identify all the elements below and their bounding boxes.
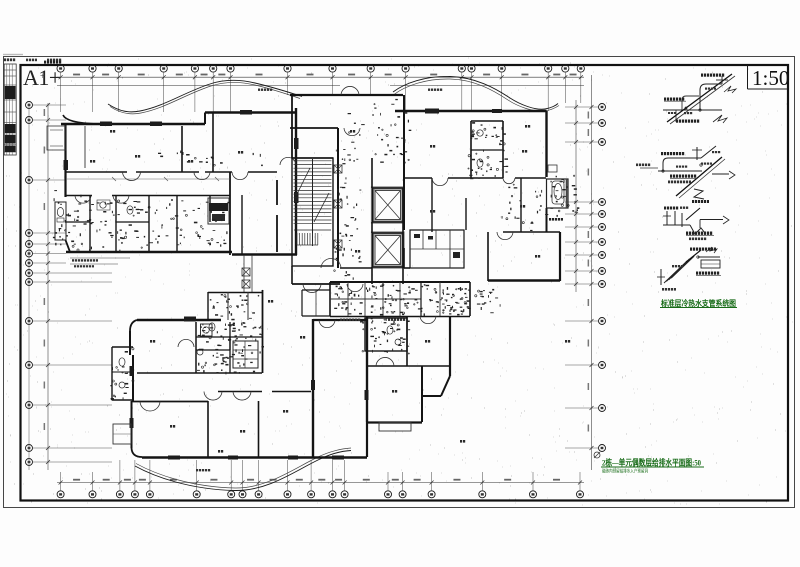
annotation cluster TR mid xyxy=(502,184,542,231)
window markers BLU walls xyxy=(130,366,316,460)
top-right unit partitions xyxy=(404,121,560,281)
entry hall door arc xyxy=(344,128,360,136)
sheet outer border xyxy=(4,57,795,508)
toilet TL bay xyxy=(57,208,64,223)
TLU hall wall xyxy=(276,180,278,252)
annotation cluster TL bathrooms xyxy=(71,199,229,252)
door arc big room BM xyxy=(319,320,369,460)
riser diagrams title (green) xyxy=(660,298,737,308)
TLU kitchen appliances xyxy=(208,198,229,224)
label below bottom wave xyxy=(196,469,210,471)
top-right unit right bay bathroom xyxy=(547,165,569,221)
bottom curved bay wave xyxy=(135,448,351,491)
sheet inner frame xyxy=(21,65,789,501)
door arc BM 1 xyxy=(376,357,394,366)
bottom-left unit left bath bay xyxy=(112,347,133,400)
right axis bubbles xyxy=(565,104,606,452)
top-right curved bay wave xyxy=(393,76,559,111)
bottom-left unit partitions xyxy=(132,322,312,457)
washing machine BLU xyxy=(184,317,212,337)
door arc corridor 1 xyxy=(123,172,141,181)
annotation cluster below entry xyxy=(442,287,500,313)
sheet name A1+ xyxy=(23,65,61,90)
header text row xyxy=(3,54,61,61)
scale 1:50 box xyxy=(748,65,790,90)
core walls xyxy=(290,95,404,284)
riser diagram 1 xyxy=(663,74,736,125)
annotation cluster BL bath xyxy=(197,322,264,374)
svg-text:1:50: 1:50 xyxy=(752,66,789,90)
riser pipes TL to BL xyxy=(244,255,252,293)
annotation cluster BL top shaft xyxy=(210,294,259,320)
bottom-left unit exterior walls xyxy=(130,319,313,458)
top-left unit partitions xyxy=(66,113,277,255)
door arc bath 1 xyxy=(75,196,129,204)
window markers TLU right wall xyxy=(64,138,299,203)
bottom axis grid bubbles xyxy=(57,460,583,498)
annotation cluster core mid xyxy=(334,142,362,280)
top-right unit exterior walls xyxy=(395,111,560,281)
door arc TR 3 xyxy=(497,232,513,240)
bottom-middle unit pipe-kitchen cluster xyxy=(330,282,470,317)
left axis bubbles xyxy=(26,102,113,466)
door arc BM 2 xyxy=(420,316,436,324)
annotation cluster center bottom pipes xyxy=(334,284,470,316)
top-left curved bay wave xyxy=(108,80,302,114)
left title strip table xyxy=(4,64,16,155)
bottom dimension line xyxy=(57,479,584,485)
top dimension line xyxy=(40,61,584,86)
riser X boxes corridor xyxy=(334,165,342,248)
labels under pipe cluster xyxy=(340,319,405,321)
annotation cluster entry top xyxy=(343,99,411,164)
top-left unit left bathroom bay xyxy=(55,202,66,240)
riser diagram 3 xyxy=(663,207,729,241)
window markers TLU top wall xyxy=(100,110,252,126)
stair core xyxy=(292,158,333,266)
toilet BL bath xyxy=(197,323,215,355)
bottom-middle unit walls xyxy=(365,316,450,431)
top-left unit left bay window xyxy=(47,126,66,150)
bottom-middle big room walls xyxy=(313,316,367,458)
window markers TRU top wall xyxy=(425,109,502,114)
room labels xyxy=(90,125,570,453)
TLU corridor dim line xyxy=(66,177,230,181)
annotation cluster BM bath xyxy=(360,318,410,354)
basin TR bath xyxy=(477,130,483,167)
bottom-left unit kitchen-bath cluster xyxy=(196,290,263,373)
door arc living TL xyxy=(280,157,296,165)
leader notes below TLU xyxy=(70,258,130,267)
svg-text:2栋—单元偶数层给排水平面图:50: 2栋—单元偶数层给排水平面图:50 xyxy=(602,458,701,468)
svg-text:磁砖内预留给排水入户预留洞: 磁砖内预留给排水入户预留洞 xyxy=(602,468,648,475)
door arc BL 1 xyxy=(140,402,160,412)
elevator shaft 2 xyxy=(373,233,404,267)
door arc BL 2 xyxy=(204,392,222,401)
basin TL bath xyxy=(97,200,110,210)
toilet TL bath2 xyxy=(127,206,133,214)
riser diagram 4 xyxy=(657,247,721,291)
svg-text:标准层冷热水支管系统图: 标准层冷热水支管系统图 xyxy=(660,298,736,308)
TLU closet line xyxy=(84,126,86,168)
top-left unit exterior walls xyxy=(61,108,297,255)
bottom-left unit top pipe shaft cluster xyxy=(208,292,263,320)
bay window labels in waves xyxy=(258,89,442,91)
annotation cluster TR baths xyxy=(468,122,508,179)
entry door arc xyxy=(303,86,363,292)
annotation cluster TL left bay xyxy=(53,190,82,245)
left dimension line xyxy=(44,103,50,470)
small balcony box left xyxy=(113,424,131,444)
right dimension line xyxy=(29,75,594,470)
door arc BL 3 xyxy=(233,392,251,401)
riser X marks pipes xyxy=(242,268,250,288)
door arc corridor 2 xyxy=(194,172,248,180)
door arc TR 1 xyxy=(432,178,448,186)
annotation cluster TR right bay xyxy=(541,175,579,217)
scan speckle xyxy=(5,58,793,505)
door arc TR 2 xyxy=(503,178,515,184)
annotation cluster BL left bay xyxy=(110,348,134,401)
door arc BL 4 xyxy=(178,339,194,347)
kitchen counter grid TR xyxy=(410,230,464,268)
toilet BM bath xyxy=(387,326,401,345)
plan title (green) xyxy=(594,452,704,475)
top axis grid bubbles xyxy=(57,65,584,112)
annotation cluster TL corridor xyxy=(158,151,263,167)
corridor cells left of pipe cluster xyxy=(302,290,330,316)
riser diagram 2 xyxy=(636,146,735,203)
svg-text:+: + xyxy=(40,71,45,81)
elevator shaft 1 xyxy=(373,188,404,222)
